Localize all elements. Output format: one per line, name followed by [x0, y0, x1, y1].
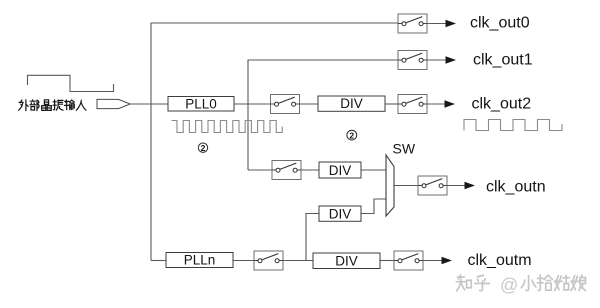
- svg-text:DIV: DIV: [329, 163, 352, 178]
- svg-text:DIV: DIV: [329, 206, 352, 221]
- svg-text:clk_out2: clk_out2: [472, 95, 532, 112]
- svg-text:PLL0: PLL0: [185, 96, 217, 111]
- svg-text:2: 2: [349, 130, 354, 140]
- svg-text:@: @: [500, 275, 518, 295]
- svg-text:DIV: DIV: [335, 254, 358, 269]
- svg-text:clk_outn: clk_outn: [486, 179, 546, 196]
- svg-text:clk_outm: clk_outm: [468, 252, 532, 269]
- svg-text:PLLn: PLLn: [184, 253, 216, 268]
- svg-text:clk_out0: clk_out0: [470, 15, 530, 32]
- svg-text:clk_out1: clk_out1: [473, 52, 533, 69]
- svg-text:DIV: DIV: [340, 96, 363, 111]
- svg-text:SW: SW: [393, 141, 416, 157]
- svg-text:2: 2: [201, 143, 206, 153]
